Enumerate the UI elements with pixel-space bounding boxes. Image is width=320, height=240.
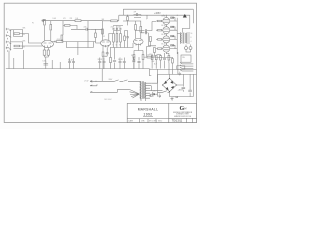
wire comb row 2 xyxy=(182,65,193,67)
svg-text:100K: 100K xyxy=(53,18,57,20)
wire V6 connections xyxy=(156,36,177,39)
wire V2 cathode xyxy=(103,47,107,68)
wire presence feedback xyxy=(157,55,161,57)
wire signal row xyxy=(63,21,96,55)
wire arrow line 1 head xyxy=(90,80,92,82)
screen resistor R23 xyxy=(171,17,174,18)
heater bus wire xyxy=(6,68,150,70)
svg-text:22N: 22N xyxy=(84,27,87,29)
bridge diode D3 xyxy=(166,87,169,90)
screen resistor R24 xyxy=(171,26,174,27)
resistor R7 470k xyxy=(61,35,63,40)
svg-text:22K: 22K xyxy=(70,18,73,20)
svg-text:16: 16 xyxy=(191,33,193,35)
wire V1 cathode to ground bus xyxy=(45,48,49,58)
svg-text:22N: 22N xyxy=(118,26,121,28)
capacitor C3 xyxy=(83,28,91,31)
resistor R19 grid stopper V4 xyxy=(158,20,162,22)
wire T1 to bridge xyxy=(151,75,162,96)
wire comb row 3 xyxy=(182,67,193,69)
resistor R22 grid stopper V7 xyxy=(158,48,162,50)
junction node D xyxy=(87,28,90,31)
wire bias row xyxy=(161,53,169,69)
wire HT top rail xyxy=(119,14,190,16)
wire rail A continue xyxy=(81,21,103,48)
wire T1 bottom leads xyxy=(141,99,146,101)
capacitor C27 stack xyxy=(126,34,128,48)
junction dot rail b xyxy=(177,15,178,16)
svg-text:EL34: EL34 xyxy=(162,25,166,27)
wire bridge output plus xyxy=(177,74,184,85)
capacitor C14 filter xyxy=(119,58,122,69)
capacitor C12 filter xyxy=(98,58,101,69)
border frame xyxy=(4,3,196,122)
resistor R17 grid xyxy=(150,37,152,42)
svg-text:TD/13/11: TD/13/11 xyxy=(172,119,183,123)
wire HT secondary top xyxy=(157,69,196,78)
resistor R3 1M xyxy=(23,34,27,46)
capacitor C17 reservoir xyxy=(188,86,192,91)
capacitor C10 filter xyxy=(68,58,71,69)
wire comb feed xyxy=(178,52,182,74)
valve V2 ECC83 xyxy=(100,40,110,46)
svg-text:4 MM 292 10 921 3 1 130: 4 MM 292 10 921 3 1 130 xyxy=(174,116,191,118)
power tube V7 xyxy=(163,45,170,52)
resistor R33 screen feed xyxy=(127,17,129,21)
title block outline xyxy=(127,103,169,122)
svg-text:1992: 1992 xyxy=(143,113,152,117)
resistor R20 grid stopper V5 xyxy=(158,29,162,31)
output transformer T2 core xyxy=(182,33,185,44)
switch SW1 mains xyxy=(115,80,123,81)
resistor R16 tail xyxy=(142,55,144,60)
output jack J6 xyxy=(189,47,192,50)
resistor R11 slope xyxy=(110,58,112,63)
wire anode bus xyxy=(177,18,180,54)
resistor R34 V2 cathode xyxy=(102,52,104,56)
switch SW1b mains xyxy=(123,80,140,81)
capacitor C20 filter xyxy=(132,57,135,69)
wire tone stack top xyxy=(113,26,123,34)
capacitor C11 filter xyxy=(72,58,75,69)
underline 1992 xyxy=(143,116,153,118)
wire mains riser xyxy=(101,69,103,81)
wire bias tap xyxy=(157,74,159,96)
wire right riser xyxy=(190,74,193,86)
resistor R5 100k anode xyxy=(50,25,52,31)
wire V5 connections xyxy=(156,27,177,30)
capacitor C13 filter xyxy=(103,58,106,69)
title block row divider xyxy=(127,118,169,120)
wire PI outputs to grids xyxy=(149,22,157,46)
wire PI tail xyxy=(134,46,143,55)
resistor R15 tail xyxy=(133,55,135,60)
valve V3 phase inverter xyxy=(134,39,144,45)
tone stack pot VR2 xyxy=(116,34,118,43)
resistor R31 divider xyxy=(155,56,157,60)
svg-text:32+32: 32+32 xyxy=(68,60,73,62)
valve V1 ECC83 xyxy=(42,40,54,47)
diode D5 bias xyxy=(154,93,156,96)
wire heater drop e xyxy=(51,60,53,69)
wire comb row 1 xyxy=(182,63,193,65)
wire R37 xyxy=(151,54,153,69)
svg-text:250P: 250P xyxy=(111,26,115,28)
capacitor C28 bias filter xyxy=(159,94,161,98)
wire V1 output coupling xyxy=(52,41,56,43)
title block cell dividers xyxy=(140,119,157,123)
wire bias feed xyxy=(146,42,154,57)
mains transformer T1 secondary winding xyxy=(144,82,145,98)
resistor R10 xyxy=(102,29,104,34)
wire neutral short xyxy=(90,84,97,86)
wire PI supply xyxy=(123,21,141,27)
resistor R27 feedback xyxy=(160,56,162,61)
resistor R32 V2 grid xyxy=(95,33,97,38)
wire PI inputs xyxy=(123,42,134,48)
capacitor C24 mid xyxy=(116,28,118,29)
wire heater drop f xyxy=(59,62,61,69)
wire V2 anode supply xyxy=(102,21,104,40)
wire mains L line xyxy=(90,80,115,82)
junction dot rail d xyxy=(141,15,142,16)
capacitor C5 bright xyxy=(134,13,142,18)
capacitor C22 snubber xyxy=(179,72,182,76)
capacitor C8 presence xyxy=(163,53,166,63)
resistor R9 series xyxy=(75,20,81,22)
capacitor C23 treble xyxy=(113,28,115,29)
svg-text:32+32: 32+32 xyxy=(98,59,103,61)
svg-text:4: 4 xyxy=(191,41,192,43)
resistor R6 cathode xyxy=(47,50,49,55)
svg-text:-52V: -52V xyxy=(153,91,156,93)
mains transformer T1 core xyxy=(142,81,145,99)
wire HT rail A xyxy=(42,20,76,25)
wire stack aux xyxy=(123,26,128,48)
output transformer T2 secondary xyxy=(184,33,187,43)
wire T1 secondary taps xyxy=(146,83,151,98)
svg-text:220K: 220K xyxy=(149,54,153,56)
wire rail B xyxy=(63,25,83,29)
resistor R28 bias xyxy=(168,56,170,61)
capacitor C21 filter xyxy=(138,57,141,69)
capacitor C6 PI out upper xyxy=(136,31,148,35)
capacitor C1 cathode xyxy=(43,50,46,55)
svg-text:B+2: B+2 xyxy=(154,64,157,66)
capacitor C7 PI out lower xyxy=(136,29,149,32)
wire earth line xyxy=(90,89,129,92)
svg-text:473: 473 xyxy=(63,18,66,20)
resistor R29 screen xyxy=(172,59,174,64)
capacitor C15 filter xyxy=(123,58,126,69)
wire heater drop a xyxy=(8,51,10,69)
wire heater drop d xyxy=(45,57,47,69)
svg-text:V2: V2 xyxy=(103,36,105,38)
resistor R30 dropper xyxy=(147,56,152,58)
wire bridge output minus xyxy=(170,92,191,97)
wire mix node xyxy=(62,40,93,48)
wire screen rail top xyxy=(119,9,194,23)
wire bias node xyxy=(150,94,152,96)
wire OT HT feed xyxy=(182,15,193,32)
bridge diode D4 xyxy=(171,86,174,89)
wire OT taps comb xyxy=(186,33,190,43)
junction bridge bottom xyxy=(169,91,170,92)
power tube V6 xyxy=(163,36,170,43)
wire V2 grid xyxy=(96,29,101,43)
svg-text:EL34: EL34 xyxy=(162,16,166,18)
bridge diode D2 xyxy=(170,81,173,84)
wire V2 plate to tone xyxy=(109,34,113,41)
tone stack pot VR3 xyxy=(120,34,122,43)
wire heater drop c xyxy=(22,50,24,69)
wire heater drop b xyxy=(13,58,15,69)
wire to V2 xyxy=(91,29,103,34)
capacitor C26 V2 cathode xyxy=(103,50,109,56)
wire V3 anodes xyxy=(136,30,141,39)
wire mid verticals xyxy=(111,48,115,69)
wire tail to bus xyxy=(134,60,143,69)
mains transformer T1 primary winding xyxy=(140,81,141,99)
svg-text:EL34: EL34 xyxy=(162,34,166,36)
standby switch SW2 xyxy=(158,91,170,93)
svg-text:32μ: 32μ xyxy=(131,55,134,57)
input jack J4 xyxy=(6,47,11,52)
capacitor C4 xyxy=(113,58,116,65)
resistor R1 68k xyxy=(14,33,20,35)
capacitor C9 filter xyxy=(44,61,49,65)
wire dropper row xyxy=(144,56,157,58)
svg-text:47P: 47P xyxy=(134,11,137,13)
svg-text:SH 1 OF 1: SH 1 OF 1 xyxy=(149,121,157,123)
svg-text:P1: P1 xyxy=(32,23,34,25)
capacitor C16 reservoir xyxy=(182,85,186,92)
svg-text:240V 50HZ: 240V 50HZ xyxy=(104,99,112,101)
svg-text:470K: 470K xyxy=(57,39,61,41)
junction arrow main HT xyxy=(183,14,187,17)
mains transformer T1 primary fan xyxy=(129,89,140,98)
junction dot rail a xyxy=(163,15,164,16)
connector mark CL2 xyxy=(176,96,179,98)
connector mark CL1 xyxy=(171,97,174,101)
wire right edge drop xyxy=(190,74,193,96)
junction bridge top xyxy=(169,78,170,79)
capacitor C18 bias xyxy=(150,92,158,96)
wire grid feeds xyxy=(11,30,23,49)
wire bus to supply xyxy=(149,69,151,76)
wire comb row 4 xyxy=(182,70,193,72)
power tube V4 xyxy=(163,18,170,25)
resistor R2 68k xyxy=(14,45,20,47)
wire to V1 grids xyxy=(27,34,43,46)
svg-text:MARSHALL: MARSHALL xyxy=(138,107,159,111)
svg-text:ISS 2: ISS 2 xyxy=(158,121,162,123)
resistor R4 100k anode xyxy=(44,20,46,26)
wire V1 anode rails xyxy=(45,26,51,41)
svg-text:E: E xyxy=(174,96,175,98)
svg-text:+465V: +465V xyxy=(178,89,184,91)
resistor R36 slope xyxy=(124,36,126,41)
wire HT drop left xyxy=(146,15,149,19)
svg-text:EL34: EL34 xyxy=(162,43,166,45)
wire V4 connections xyxy=(156,18,177,21)
wire upper supply row xyxy=(150,68,197,71)
junction dot rail c xyxy=(127,15,128,16)
capacitor C25 bass xyxy=(119,28,121,29)
wire input bus xyxy=(11,30,14,51)
output transformer T2 primary xyxy=(179,33,182,44)
box indicator block xyxy=(181,55,191,62)
box mains label xyxy=(177,66,185,69)
resistor R12 choke feed xyxy=(111,20,118,22)
junction bridge right xyxy=(176,84,177,85)
resistor R18 grid xyxy=(154,48,156,53)
screen resistor R25 xyxy=(171,35,174,36)
bridge rectifier BR1 xyxy=(163,78,177,91)
logo box divider xyxy=(169,118,197,122)
logo box outline xyxy=(169,103,197,122)
input jack J1 xyxy=(6,28,11,33)
wire R33 xyxy=(127,15,129,25)
resistor R37 divider xyxy=(151,56,153,60)
wire jack links xyxy=(186,45,191,53)
junction mains xyxy=(96,81,97,82)
screen resistor R26 xyxy=(171,45,174,46)
svg-text:T: T xyxy=(112,45,113,47)
power tube V5 xyxy=(163,27,170,34)
input jack J3 xyxy=(6,41,11,46)
wire V7 connections xyxy=(156,45,177,48)
input jack J2 xyxy=(6,34,11,39)
svg-text:+465V: +465V xyxy=(154,13,161,15)
output jack J5 xyxy=(185,47,188,50)
svg-text:50+50: 50+50 xyxy=(118,59,123,61)
resistor R8 mixer xyxy=(65,25,71,27)
wire screen node xyxy=(156,57,172,74)
junction bridge left xyxy=(162,84,163,85)
wire tone stack bottom xyxy=(110,42,123,48)
resistor R13 PI anode xyxy=(135,25,137,31)
resistor R35 coupling xyxy=(56,41,63,43)
bridge diode D1 xyxy=(164,81,167,84)
resistor R21 grid stopper V6 xyxy=(158,39,162,41)
bracket decoupling xyxy=(42,19,43,22)
svg-text:8: 8 xyxy=(191,37,192,39)
wire rail to R12 xyxy=(103,20,119,22)
tone stack pot VR1 xyxy=(113,34,115,43)
resistor R14 PI anode xyxy=(140,27,142,33)
